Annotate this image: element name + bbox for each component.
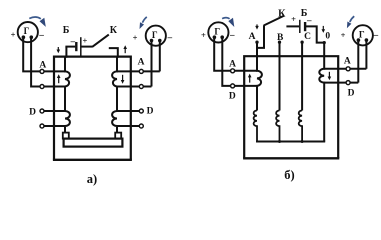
rotation arrow of G3 (clockwise, blue) <box>222 18 234 27</box>
wire B <box>279 42 281 110</box>
wire G2 inner terminal down <box>151 41 153 87</box>
terminal D machine3 <box>231 84 235 88</box>
svg-text:Б: Б <box>301 8 308 19</box>
svg-text:D: D <box>29 108 36 118</box>
svg-text:+: + <box>11 30 16 40</box>
wire G4 outer terminal down <box>365 40 367 69</box>
svg-text:К: К <box>278 9 286 20</box>
phase coil A <box>254 110 257 141</box>
svg-text:–: – <box>70 36 76 46</box>
wire D stub machine4 <box>324 82 358 84</box>
terminal D1 machine1 <box>40 109 44 113</box>
bottom frame wire of diagram a <box>53 159 132 161</box>
winding machine3 on wire A <box>257 42 262 111</box>
current arrow down above label A <box>255 24 259 29</box>
terminal A1 machine1 <box>40 69 44 73</box>
svg-text:D: D <box>147 106 154 116</box>
bottom frame wire of diagram b <box>243 157 339 159</box>
current arrow down at wire 0 <box>322 26 326 33</box>
current arrow down in machine2 winding <box>121 75 125 84</box>
svg-text:A: A <box>344 57 351 67</box>
svg-text:A: A <box>138 58 145 68</box>
svg-text:Г: Г <box>24 26 30 36</box>
wire G3 right terminal to D stub <box>222 39 257 86</box>
terminal D2 machine2 <box>139 124 143 128</box>
battery wire right to switch pivot <box>81 46 93 48</box>
wire A stub row2 machine2 <box>117 86 152 88</box>
svg-text:+: + <box>133 32 138 42</box>
current arrow down in machine4 winding <box>328 72 332 80</box>
current arrow up in machine3 winding <box>248 74 252 83</box>
terminal dot A top <box>255 41 258 44</box>
wire G4 inner terminal down <box>357 40 359 83</box>
bus bar between machines <box>64 139 123 147</box>
svg-text:B: B <box>277 33 284 43</box>
svg-text:К: К <box>110 25 118 36</box>
phase coil B <box>276 110 279 141</box>
terminal A machine3 <box>231 69 235 73</box>
battery B2 long plate <box>299 20 301 33</box>
current arrow up in machine1 winding <box>57 74 61 83</box>
generator G2 <box>146 26 166 46</box>
svg-text:A: A <box>229 60 236 70</box>
pad square machine1 <box>63 133 69 139</box>
battery B short plate <box>75 42 77 51</box>
current arrow down at left top corner <box>57 47 61 53</box>
rotation arrow of G4 (counter-clockwise, blue) <box>347 16 354 28</box>
switch branch from wire A <box>257 25 264 48</box>
top frame wire of diagram a <box>54 57 131 160</box>
terminal A2 machine1 <box>40 85 44 89</box>
generator G1 <box>18 22 38 42</box>
winding A machine2 <box>112 57 117 133</box>
generator G3 <box>208 22 228 42</box>
rotation arrow of G2 (counter-clockwise, blue) <box>140 17 147 29</box>
battery wire left <box>65 46 75 48</box>
wire G3 left terminal to A stub <box>214 39 257 71</box>
terminal D1 machine2 <box>139 109 143 113</box>
wire D stub row1 machine2 <box>117 110 141 112</box>
svg-text:D: D <box>348 89 355 99</box>
svg-text:а): а) <box>87 172 97 186</box>
svg-text:–: – <box>38 29 44 39</box>
terminal dot C <box>300 41 303 44</box>
wire A stub row1 machine2 <box>117 70 160 72</box>
battery B long plate <box>80 37 82 56</box>
battery B2 wire left (fixed contact of K2) <box>286 25 299 27</box>
svg-text:Г: Г <box>214 27 220 37</box>
terminal A1 machine2 <box>139 69 143 73</box>
generator G4 <box>353 25 373 45</box>
svg-text:–: – <box>167 32 173 42</box>
terminal A2 machine2 <box>139 85 143 89</box>
battery B2 short plate <box>304 22 306 31</box>
terminal D machine4 <box>346 81 350 85</box>
wire 0 / winding machine4 <box>319 43 324 142</box>
svg-text:C: C <box>304 32 311 42</box>
junction dot C bottom <box>301 140 304 143</box>
switch K blade <box>92 35 109 47</box>
switch K2 blade <box>264 16 285 26</box>
svg-text:D: D <box>229 92 236 102</box>
switch K fixed contact <box>109 48 118 58</box>
wire G2 outer terminal down <box>159 41 161 72</box>
rotation arrow of G1 (clockwise, blue) <box>29 17 46 27</box>
svg-text:A: A <box>39 61 46 71</box>
star point wire at bottom of coils <box>256 141 325 143</box>
wire C <box>301 42 303 110</box>
phase coil C <box>299 110 302 141</box>
svg-text:+: + <box>201 30 206 40</box>
svg-text:–: – <box>229 30 235 40</box>
node 0 dot <box>323 41 326 44</box>
terminal dot B <box>278 41 281 44</box>
junction dot B bottom <box>278 140 281 143</box>
svg-text:Г: Г <box>359 29 365 39</box>
pad square machine2 <box>115 133 121 139</box>
terminal D2 machine1 <box>40 124 44 128</box>
svg-text:+: + <box>82 35 87 45</box>
winding A machine1 <box>65 57 70 133</box>
battery wire right down to node 0 <box>305 26 324 42</box>
svg-text:+: + <box>291 14 296 24</box>
battery stub left <box>65 47 67 58</box>
svg-text:Б: Б <box>63 25 70 36</box>
wire D stub row1 machine1 <box>42 110 65 112</box>
svg-text:0: 0 <box>325 32 330 42</box>
svg-text:б): б) <box>284 168 294 182</box>
wire A stub machine4 <box>324 68 366 70</box>
terminal A machine4 <box>346 67 350 71</box>
svg-text:+: + <box>341 30 346 40</box>
svg-text:A: A <box>249 32 256 42</box>
svg-text:–: – <box>373 30 379 40</box>
svg-text:Г: Г <box>152 30 158 40</box>
frame wire of diagram b <box>244 56 338 158</box>
wire D stub row2 machine1 <box>42 125 65 127</box>
wire G1 right terminal to A terminal row2 <box>31 39 65 87</box>
current arrow up at right top corner <box>123 45 127 53</box>
wire D stub row2 machine2 <box>117 125 141 127</box>
wire G1 left terminal to A terminal row1 <box>23 39 65 72</box>
